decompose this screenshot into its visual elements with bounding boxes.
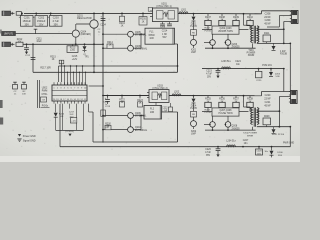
capacitor C229 beside filter [170, 103, 172, 107]
svg-text:10R: 10R [149, 38, 154, 40]
svg-text:L201: L201 [181, 9, 187, 12]
wire filter to bus corner [175, 43, 178, 45]
transistor Q205 [102, 33, 104, 35]
fuse F201 [16, 12, 21, 16]
wire right of U202 [88, 104, 90, 112]
wire Q210 out [133, 129, 141, 131]
svg-text:(DRIVER): (DRIVER) [81, 34, 91, 36]
svg-text:T202 POWER: T202 POWER [243, 133, 257, 135]
wire Q205 out [133, 33, 145, 35]
capacitor C210 [26, 43, 28, 45]
svg-text:C224: C224 [235, 61, 241, 63]
diode D203 [54, 113, 58, 117]
box label Q202 Q203 2N3055 TWIN [212, 26, 239, 34]
svg-text:C228: C228 [257, 151, 263, 153]
transistor Q206 [128, 45, 134, 51]
wire input signal [16, 33, 73, 35]
wire bus under resistors bottom [202, 111, 249, 113]
svg-text:33SW: 33SW [148, 35, 155, 37]
svg-text:Q202,Q203: Q202,Q203 [220, 28, 233, 30]
capacitor C208 C209 block [261, 11, 263, 14]
diode D202 [84, 43, 86, 45]
svg-text:1K: 1K [121, 25, 124, 27]
svg-text:R205: R205 [140, 19, 146, 21]
ground mark on input wire [35, 29, 37, 33]
wire U202 left bottom drop [59, 104, 61, 147]
svg-text:1K: 1K [142, 21, 145, 23]
connector J201 [291, 11, 298, 24]
svg-text:1 NF: 1 NF [162, 34, 168, 36]
wire wrap L1 [93, 141, 178, 143]
legend power gnd [18, 134, 21, 137]
svg-text:2N3055: 2N3055 [232, 46, 241, 48]
svg-text:T201: T201 [248, 50, 254, 52]
svg-text:PG/0x: PG/0x [42, 106, 49, 108]
wire U202 bottom leads [55, 104, 57, 113]
wire secondary top right lower [257, 110, 280, 112]
wire to J201 pin 3 [284, 21, 292, 23]
capacitor C219 [107, 96, 109, 99]
resistor R204 [121, 13, 123, 16]
svg-text:45 NF: 45 NF [264, 104, 271, 107]
svg-text:+12V: +12V [72, 59, 78, 61]
wire long branch x103 [102, 13, 104, 95]
capacitor C202 [35, 13, 37, 15]
wire rail after U201 [178, 12, 262, 14]
svg-text:4.7K: 4.7K [70, 50, 75, 52]
wire branch x33 [32, 43, 34, 45]
svg-text:35V: 35V [39, 23, 44, 26]
capacitor C204 [102, 13, 104, 17]
svg-text:35V: 35V [207, 76, 212, 78]
wire to J201 pin 2 [279, 15, 291, 17]
resistor R226 [221, 96, 223, 98]
lamp X202 [191, 121, 197, 127]
svg-text:PCM 201: PCM 201 [262, 65, 272, 67]
box label Q207 Q208 PULSE TWIN [212, 108, 239, 116]
svg-text:C212: C212 [25, 55, 31, 57]
capacitor C225 [258, 68, 260, 70]
svg-text:PWR GND: PWR GND [283, 142, 294, 144]
svg-text:10R: 10R [150, 112, 155, 114]
junction aux and Q201 emitter [93, 43, 95, 45]
transistor Q204 [72, 30, 79, 37]
diode D205 [270, 68, 272, 70]
svg-text:2N3055 TWIN: 2N3055 TWIN [218, 31, 233, 33]
wire Q201 emitter junction on bus [93, 65, 95, 67]
wire secondary bottom right lower [257, 126, 291, 128]
svg-text:C227: C227 [243, 140, 249, 142]
filter box FL202 [144, 105, 162, 119]
resistor R209 [235, 14, 237, 16]
wire U203 to filter [155, 102, 157, 105]
svg-text:L202: L202 [174, 90, 180, 93]
svg-text:LMP: LMP [191, 133, 196, 135]
svg-text:1K: 1K [109, 45, 112, 47]
wire secondary top right [257, 28, 284, 30]
resistor R206 [191, 30, 197, 36]
svg-text:Power GND: Power GND [23, 135, 36, 138]
wire branch x103 lower [102, 96, 104, 143]
svg-text:1 2W: 1 2W [280, 51, 286, 53]
transistor Q209 [102, 115, 104, 117]
svg-text:LMP: LMP [191, 52, 196, 54]
transistor Q203 [227, 34, 229, 39]
wire PCM to J202 [283, 69, 285, 92]
wire bus A left drop [58, 66, 60, 82]
svg-text:35V: 35V [53, 23, 58, 26]
svg-text:10uF: 10uF [36, 41, 42, 43]
svg-text:2N3055: 2N3055 [232, 128, 241, 130]
svg-text:L204 51x: L204 51x [226, 141, 236, 143]
svg-text:C226: C226 [205, 149, 211, 151]
svg-text:L203 51x: L203 51x [221, 61, 231, 63]
wire U202 top feed [89, 85, 103, 87]
svg-text:Signal GND: Signal GND [23, 140, 36, 143]
resistor R207 [207, 14, 209, 16]
diode D207 [273, 43, 275, 45]
resistor R205 [142, 13, 144, 16]
transistor Q208 [227, 116, 229, 121]
svg-text:C214: C214 [162, 30, 168, 32]
wire Q209-Q210 link [130, 118, 132, 126]
wire Q209 out [133, 115, 144, 117]
wire main +V rail top [24, 12, 153, 14]
svg-text:XFMR: XFMR [247, 135, 254, 137]
wire J202 to ground rail [289, 127, 291, 147]
ic U202 controller [52, 85, 87, 101]
wire PCM rail [202, 68, 284, 70]
diode D204 [193, 95, 195, 97]
capacitor C201 [21, 13, 23, 15]
legend signal gnd [17, 138, 21, 140]
wire Q204 collector to Q201 base [75, 24, 77, 30]
svg-text:35V: 35V [24, 23, 29, 26]
connector J202 [291, 91, 298, 104]
wire right edge vertical [283, 22, 285, 44]
svg-text:Q207,Q208: Q207,Q208 [220, 110, 233, 112]
lamp X201 [191, 39, 197, 45]
svg-text:35V: 35V [206, 155, 211, 157]
wire aux line [23, 43, 103, 45]
svg-text:4.7uF: 4.7uF [206, 73, 212, 75]
capacitor C220 C221 block [261, 92, 263, 96]
resistor R208 [221, 14, 223, 16]
svg-text:R217 10R: R217 10R [40, 67, 51, 69]
capacitor C203 [50, 13, 52, 15]
wire emitter bus Q202 Q203 [212, 45, 214, 48]
svg-text:C222: C222 [162, 107, 168, 109]
resistor R213 [75, 43, 77, 45]
wire bus A [59, 65, 178, 67]
svg-text:C225: C225 [256, 80, 262, 82]
svg-text:CTRL: CTRL [42, 94, 49, 96]
wire wrap L2 ground rail [60, 146, 291, 148]
svg-text:35V: 35V [257, 153, 261, 155]
wire TP bus bottom [56, 129, 84, 131]
wire Q204 emitter [75, 37, 77, 44]
wire J202 pin 2 riser [278, 97, 280, 127]
transistor Q210 [128, 127, 134, 133]
svg-text:U202: U202 [42, 88, 48, 90]
resistor R224 [191, 111, 197, 117]
resistor R228 [249, 96, 251, 98]
svg-text:(INPUT): (INPUT) [4, 33, 13, 36]
resistor R222 [121, 96, 123, 99]
capacitor C216 [41, 97, 47, 102]
svg-text:PLT06: PLT06 [205, 30, 212, 32]
svg-text:POWER: POWER [247, 53, 256, 55]
capacitor C223 [217, 68, 219, 70]
diode D201 [193, 13, 195, 15]
wire Q201 emitter [93, 28, 95, 66]
svg-text:45 NF: 45 NF [264, 23, 271, 26]
svg-text:R232: R232 [205, 28, 211, 30]
capacitor C226 [217, 146, 219, 148]
svg-text:4.7uF: 4.7uF [205, 152, 211, 154]
svg-text:XFMR: XFMR [248, 55, 255, 57]
svg-text:50V: 50V [162, 37, 167, 39]
wire rail after U203 [169, 95, 262, 97]
svg-text:R233: R233 [205, 109, 211, 111]
svg-text:R231 PLT06: R231 PLT06 [272, 134, 285, 136]
connector P201 power input jack [2, 11, 11, 15]
transistor Q207 [212, 116, 214, 121]
svg-text:PWM: PWM [42, 91, 48, 93]
diode D206 [271, 146, 273, 148]
transformer T201 [243, 14, 245, 25]
wire secondary bottom right [257, 42, 291, 44]
svg-text:R213: R213 [70, 47, 76, 49]
scan artifact left edge 1 [0, 100, 3, 108]
svg-text:10K: 10K [22, 94, 26, 96]
svg-text:TP1: TP1 [85, 57, 90, 59]
svg-text:C219: C219 [105, 106, 111, 108]
resistor R221 [70, 118, 76, 123]
svg-text:PLT06: PLT06 [205, 112, 212, 114]
svg-text:C223: C223 [206, 70, 212, 72]
wire filter to wrap corner [162, 111, 178, 113]
wire Q205-Q206 link [130, 37, 132, 45]
capacitor C228 [258, 147, 260, 149]
svg-text:PULSE TWIN: PULSE TWIN [219, 113, 233, 115]
svg-text:PLT05: PLT05 [190, 26, 197, 28]
scan artifact left edge 3 [0, 30, 2, 34]
capacitor C206 under U201 [162, 22, 164, 24]
resistor R223 [139, 96, 141, 99]
wire emitter bus Q207 Q208 [212, 127, 214, 130]
test point TP2 [14, 82, 16, 84]
svg-text:1K: 1K [121, 102, 124, 104]
capacitor C207 under U201 [169, 22, 171, 24]
resistor R227 [235, 96, 237, 98]
svg-text:1K: 1K [139, 102, 142, 104]
wire main rail bottom [103, 95, 149, 97]
wire pin fan to U202 [64, 66, 66, 85]
wire Q201 base [76, 23, 90, 25]
transformer T202 [243, 96, 245, 107]
svg-text:(TP201): (TP201) [65, 131, 74, 133]
wire bus under resistors [202, 29, 249, 31]
svg-text:PLT05: PLT05 [190, 108, 197, 110]
resistor R225 [207, 96, 209, 98]
wire right edge return [289, 43, 291, 90]
wire bus B [33, 71, 178, 73]
wire Q206 out [133, 47, 141, 49]
connector P202 aux jack [2, 42, 11, 46]
diode D208 [273, 127, 275, 129]
svg-text:51B: 51B [278, 155, 282, 157]
svg-text:REGULATOR: REGULATOR [77, 17, 92, 20]
node INPUT label [2, 31, 16, 35]
resistor R210 [249, 14, 251, 16]
transistor Q202 [212, 34, 214, 39]
filter box FL201 [145, 28, 175, 44]
test point TP3 [23, 82, 25, 84]
wire branch x61 [61, 60, 63, 82]
svg-text:1K: 1K [52, 59, 55, 61]
svg-text:P203B: P203B [280, 54, 287, 56]
svg-text:51B: 51B [276, 76, 280, 78]
scan artifact left edge 2 [0, 118, 3, 125]
wire vertical pair left [37, 80, 39, 108]
wire Q201 collector [93, 13, 95, 19]
